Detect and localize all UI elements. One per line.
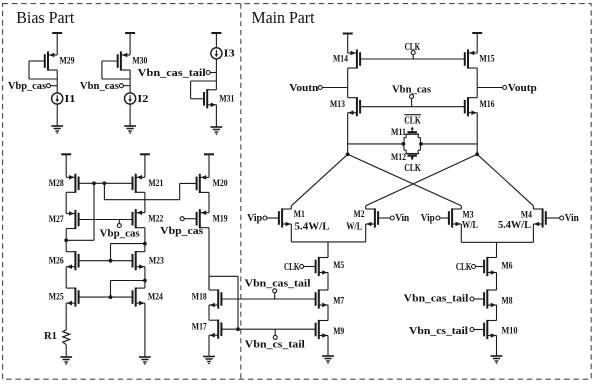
svg-text:CLK: CLK — [284, 262, 300, 273]
svg-text:M30: M30 — [132, 55, 147, 65]
svg-text:CLK: CLK — [456, 262, 472, 273]
svg-text:M15: M15 — [480, 54, 495, 64]
svg-text:M3: M3 — [463, 210, 474, 220]
svg-text:W/L: W/L — [462, 220, 478, 231]
svg-text:M2: M2 — [354, 209, 365, 219]
svg-text:Vbp_cas: Vbp_cas — [100, 229, 140, 240]
svg-text:Vbn_cas_tail: Vbn_cas_tail — [404, 294, 469, 305]
svg-text:M27: M27 — [49, 214, 64, 224]
svg-text:Voutp: Voutp — [508, 83, 537, 94]
svg-text:M25: M25 — [49, 292, 64, 302]
svg-text:5.4W/L: 5.4W/L — [498, 220, 531, 231]
svg-text:CLK: CLK — [405, 42, 421, 53]
svg-text:M13: M13 — [330, 99, 345, 109]
svg-text:Vbn_cs_tail: Vbn_cs_tail — [409, 326, 468, 337]
svg-text:M11: M11 — [391, 127, 406, 137]
svg-text:Vin: Vin — [395, 213, 409, 224]
svg-text:M4: M4 — [521, 210, 532, 220]
svg-text:R1: R1 — [44, 331, 57, 342]
svg-text:M26: M26 — [49, 255, 64, 265]
svg-text:Main Part: Main Part — [252, 8, 315, 27]
svg-text:M29: M29 — [60, 55, 75, 65]
svg-text:I2: I2 — [137, 94, 148, 105]
svg-text:Voutn: Voutn — [289, 83, 318, 94]
svg-text:I1: I1 — [65, 94, 76, 105]
svg-text:CLK: CLK — [404, 163, 421, 174]
svg-text:M16: M16 — [480, 99, 495, 109]
svg-text:M6: M6 — [502, 261, 513, 271]
svg-text:Vbn_cas_tail: Vbn_cas_tail — [138, 68, 206, 79]
svg-text:M14: M14 — [333, 54, 348, 64]
svg-text:M18: M18 — [192, 291, 207, 301]
svg-text:5.4W/L: 5.4W/L — [295, 221, 330, 232]
svg-text:M28: M28 — [49, 178, 64, 188]
svg-text:W/L: W/L — [346, 221, 362, 232]
svg-text:Vbn_cas: Vbn_cas — [392, 84, 431, 95]
svg-text:M24: M24 — [148, 292, 163, 302]
svg-text:Vip: Vip — [421, 213, 435, 224]
svg-text:M12: M12 — [391, 152, 406, 162]
svg-text:Vbn_cs_tail: Vbn_cs_tail — [245, 340, 305, 351]
svg-text:M17: M17 — [192, 322, 207, 332]
svg-text:M21: M21 — [148, 178, 163, 188]
svg-text:M20: M20 — [213, 178, 228, 188]
svg-text:Bias Part: Bias Part — [16, 8, 74, 27]
svg-text:M8: M8 — [502, 295, 513, 305]
svg-text:M7: M7 — [333, 296, 344, 306]
svg-text:CLK: CLK — [404, 116, 421, 127]
svg-text:M9: M9 — [333, 326, 344, 336]
svg-text:M19: M19 — [213, 213, 228, 223]
svg-text:Vbp_cas: Vbp_cas — [160, 226, 203, 237]
svg-text:M22: M22 — [148, 213, 163, 223]
svg-text:Vbn_cas: Vbn_cas — [80, 81, 119, 92]
svg-text:M10: M10 — [502, 326, 518, 336]
svg-text:Vbn_cas_tail: Vbn_cas_tail — [245, 279, 311, 290]
svg-text:Vip: Vip — [247, 213, 262, 224]
svg-text:I3: I3 — [224, 49, 235, 60]
svg-text:M1: M1 — [294, 209, 305, 219]
svg-text:M23: M23 — [149, 255, 164, 265]
svg-text:Vbp_cas: Vbp_cas — [8, 81, 46, 92]
svg-text:Vin: Vin — [565, 213, 579, 224]
svg-text:M5: M5 — [333, 260, 344, 270]
svg-text:M31: M31 — [219, 93, 234, 103]
